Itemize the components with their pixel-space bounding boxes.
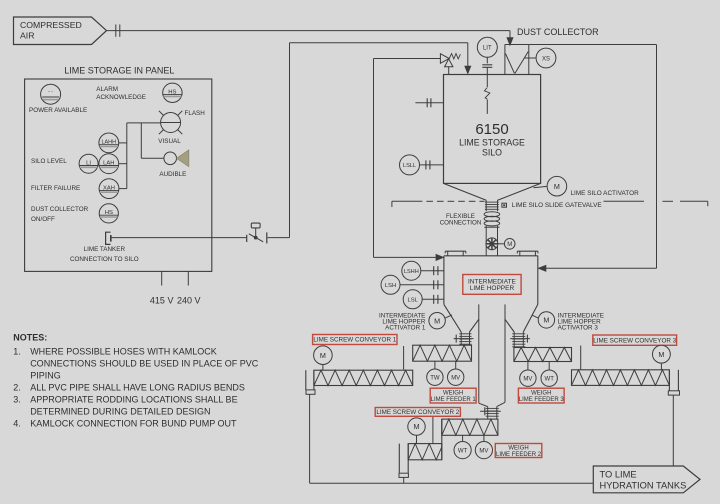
svg-text:LIT: LIT [483,46,492,52]
svg-text:4.: 4. [13,419,21,429]
svg-text:LSL: LSL [407,298,418,304]
svg-text:WT: WT [545,377,555,383]
svg-text:LSH: LSH [385,283,396,289]
svg-text:HS: HS [168,90,176,96]
svg-text:1.: 1. [13,347,21,357]
svg-text:M: M [434,316,440,325]
svg-text:VISUAL: VISUAL [158,138,181,145]
svg-text:LIME SCREW CONVEYOR 3: LIME SCREW CONVEYOR 3 [593,337,676,344]
svg-text:ALL PVC PIPE SHALL HAVE LONG R: ALL PVC PIPE SHALL HAVE LONG RADIUS BEND… [30,383,245,393]
svg-text:LIME FEEDER 2: LIME FEEDER 2 [496,452,542,458]
svg-text:TW: TW [430,376,440,382]
svg-text:CONNECTIONS SHOULD BE USED IN: CONNECTIONS SHOULD BE USED IN PLACE OF P… [30,359,259,369]
svg-text:PIPING: PIPING [30,371,61,381]
svg-text:WEIGH: WEIGH [508,445,528,451]
svg-text:CONNECTION TO SILO: CONNECTION TO SILO [70,256,139,263]
svg-text:240 V: 240 V [177,295,201,305]
svg-text:LIME STORAGE IN PANEL: LIME STORAGE IN PANEL [64,66,174,76]
svg-text:SILO LEVEL: SILO LEVEL [31,158,67,165]
svg-text:WEIGH: WEIGH [531,391,551,397]
svg-text:ACTIVATOR 1: ACTIVATOR 1 [385,325,426,332]
svg-text:NOTES:: NOTES: [13,333,47,343]
svg-text:LIME SCREW CONVEYOR 2: LIME SCREW CONVEYOR 2 [376,409,459,416]
svg-text:LIME SILO ACTIVATOR: LIME SILO ACTIVATOR [571,190,640,197]
svg-text:COMPRESSED: COMPRESSED [20,20,82,30]
svg-text:DUST COLLECTOR: DUST COLLECTOR [31,206,89,213]
svg-text:415 V: 415 V [150,295,174,305]
svg-text:M: M [658,350,664,359]
svg-text:FLASH: FLASH [185,110,206,117]
svg-text:6150: 6150 [475,121,508,138]
svg-text:LIME STORAGE: LIME STORAGE [459,137,525,147]
svg-text:LIME FEEDER 3: LIME FEEDER 3 [519,397,565,403]
svg-text:SILO: SILO [482,147,502,157]
svg-text:LSHH: LSHH [404,269,419,275]
svg-text:CONNECTION: CONNECTION [440,220,482,227]
svg-text:XAH: XAH [103,185,115,191]
svg-text:ALARM: ALARM [96,86,118,93]
svg-text:M: M [320,351,326,360]
svg-text:LIME HOPPER: LIME HOPPER [470,285,515,292]
svg-text:MV: MV [479,448,488,454]
svg-text:LIME FEEDER 1: LIME FEEDER 1 [431,397,477,403]
svg-text:DUST COLLECTOR: DUST COLLECTOR [517,27,599,37]
svg-text:M: M [507,242,512,248]
svg-text:LSLL: LSLL [403,163,416,169]
svg-text:LAH: LAH [103,161,114,167]
svg-text:LI: LI [86,161,91,167]
svg-text:ACKNOWLEDGE: ACKNOWLEDGE [96,94,146,101]
svg-text:WHERE POSSIBLE HOSES WITH KAML: WHERE POSSIBLE HOSES WITH KAMLOCK [30,347,217,357]
svg-text:LIME SCREW CONVEYOR 1: LIME SCREW CONVEYOR 1 [313,337,396,344]
svg-text:WT: WT [458,448,468,454]
svg-text:ACTIVATOR 3: ACTIVATOR 3 [558,325,599,332]
svg-text:LAHH: LAHH [101,140,116,146]
svg-text:LIME SILO SLIDE GATEVALVE: LIME SILO SLIDE GATEVALVE [512,202,602,209]
svg-text:KAMLOCK CONNECTION FOR BUND PU: KAMLOCK CONNECTION FOR BUND PUMP OUT [30,419,237,429]
svg-text:XS: XS [542,56,550,62]
svg-text:AUDIBLE: AUDIBLE [159,171,186,178]
svg-text:MV: MV [451,376,460,382]
svg-text:HYDRATION TANKS: HYDRATION TANKS [600,481,687,491]
svg-text:- -: - - [48,89,53,95]
svg-text:POWER AVAILABLE: POWER AVAILABLE [29,107,87,114]
svg-text:WEIGH: WEIGH [443,391,463,397]
svg-text:DETERMINED DURING DETAILED DES: DETERMINED DURING DETAILED DESIGN [30,407,210,417]
svg-text:M: M [414,422,420,431]
svg-text:LIME TANKER: LIME TANKER [84,246,126,253]
svg-text:AIR: AIR [20,31,34,41]
svg-text:HS: HS [105,210,113,216]
svg-text:3.: 3. [13,395,21,405]
svg-text:FILTER FAILURE: FILTER FAILURE [31,185,80,192]
svg-text:TO LIME: TO LIME [600,469,637,479]
svg-text:M: M [554,182,560,191]
svg-text:MV: MV [523,377,532,383]
svg-text:2.: 2. [13,383,21,393]
svg-text:ON/OFF: ON/OFF [31,216,55,223]
svg-text:M: M [543,316,549,325]
svg-text:APPROPRIATE RODDING LOCATIONS: APPROPRIATE RODDING LOCATIONS SHALL BE [30,395,237,405]
